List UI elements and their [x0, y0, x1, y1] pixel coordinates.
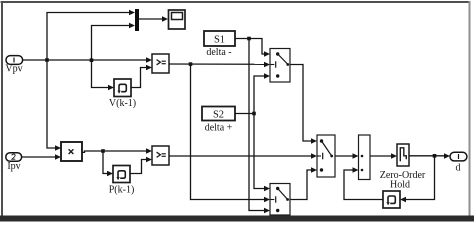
- unit delay V(k-1): [109, 79, 136, 109]
- wire memory output to sum block input 2: [344, 167, 383, 199]
- wire P(k-1) to relational operator P input 2: [130, 157, 152, 174]
- sum block U3: [359, 135, 371, 180]
- node junction on product output wire at x103: [101, 149, 105, 153]
- wire Vpv branch down to product input 1: [47, 60, 61, 151]
- switch SW1 (top): [270, 49, 290, 83]
- svg-text:Hold: Hold: [390, 180, 410, 191]
- product block X: [61, 142, 82, 161]
- svg-text:delta +: delta +: [205, 123, 233, 134]
- wire Vpv branch up to mux input 2: [92, 23, 136, 60]
- svg-text:d: d: [456, 163, 461, 174]
- outport d: [450, 152, 467, 173]
- unit delay P(k-1): [109, 166, 135, 196]
- wire zero-order hold to outport d: [409, 153, 450, 159]
- wire switch2 output to switch3 input 3: [290, 167, 317, 199]
- node junction on Vpv wire at x91.5: [90, 58, 94, 62]
- svg-text:Ipv: Ipv: [7, 161, 20, 172]
- wire mux to scope: [139, 16, 168, 22]
- constant S1: [204, 31, 235, 58]
- wire S2 branch up to switch1 input 3: [254, 73, 270, 113]
- zero-order hold U4: [380, 144, 426, 191]
- svg-text:S2: S2: [213, 110, 224, 121]
- scope: [169, 10, 186, 29]
- wire switch3 output to sum block: [335, 153, 359, 159]
- relational operator U2 >= (power): [152, 146, 169, 165]
- node junction on output wire at x434.5: [433, 154, 437, 158]
- wire product branch down to unit delay P(k-1): [103, 151, 113, 176]
- node junction on V comparison wire at x190.5: [189, 62, 193, 66]
- wire Vpv branch up to mux input 1: [47, 10, 135, 60]
- node junction on Vpv wire at x47: [45, 58, 49, 62]
- svg-text:S1: S1: [214, 35, 225, 46]
- inport Ipv: [6, 153, 22, 172]
- wire S2 output: [235, 113, 254, 115]
- wire product output to relational operator P input 1: [82, 148, 152, 154]
- svg-text:Vpv: Vpv: [5, 64, 22, 75]
- node junction on S1 wire at x249: [247, 37, 251, 41]
- wire relational operator V output to switch1 input 2: [169, 62, 270, 68]
- svg-text:P(k-1): P(k-1): [109, 184, 135, 195]
- wire sum to zero-order hold: [370, 153, 397, 159]
- wire S2 branch down to switch2 input 1: [254, 114, 270, 192]
- node junction on S2 wire at x254: [252, 112, 256, 116]
- switch SW3 (output select): [317, 135, 335, 177]
- relational operator U1 >= (voltage): [152, 54, 169, 73]
- memory block d(k-1): [383, 191, 400, 208]
- constant S2: [202, 107, 235, 134]
- wire V comparison branch down to switch2 input 2: [191, 64, 271, 202]
- wire Vpv branch down to unit delay V(k-1): [92, 60, 115, 90]
- switch SW2 (bottom): [270, 184, 290, 216]
- wire V(k-1) to relational operator input 2: [131, 65, 152, 88]
- wire relational operator P output to switch3 input 2: [169, 153, 317, 159]
- wire S1 to switch1 input 1: [235, 39, 270, 57]
- mux M1: [135, 9, 139, 31]
- wire Ipv to product input 2: [22, 154, 62, 160]
- wire Vpv to relational operator input 1: [23, 57, 153, 63]
- wire switch1 output to switch3 input 1: [290, 65, 317, 144]
- wire feedback from output junction down to memory block: [400, 156, 435, 203]
- wire S1 branch down to switch2 input 3: [249, 39, 270, 214]
- inport Vpv: [5, 56, 22, 75]
- svg-text:delta -: delta -: [206, 47, 231, 58]
- svg-text:V(k-1): V(k-1): [109, 98, 136, 109]
